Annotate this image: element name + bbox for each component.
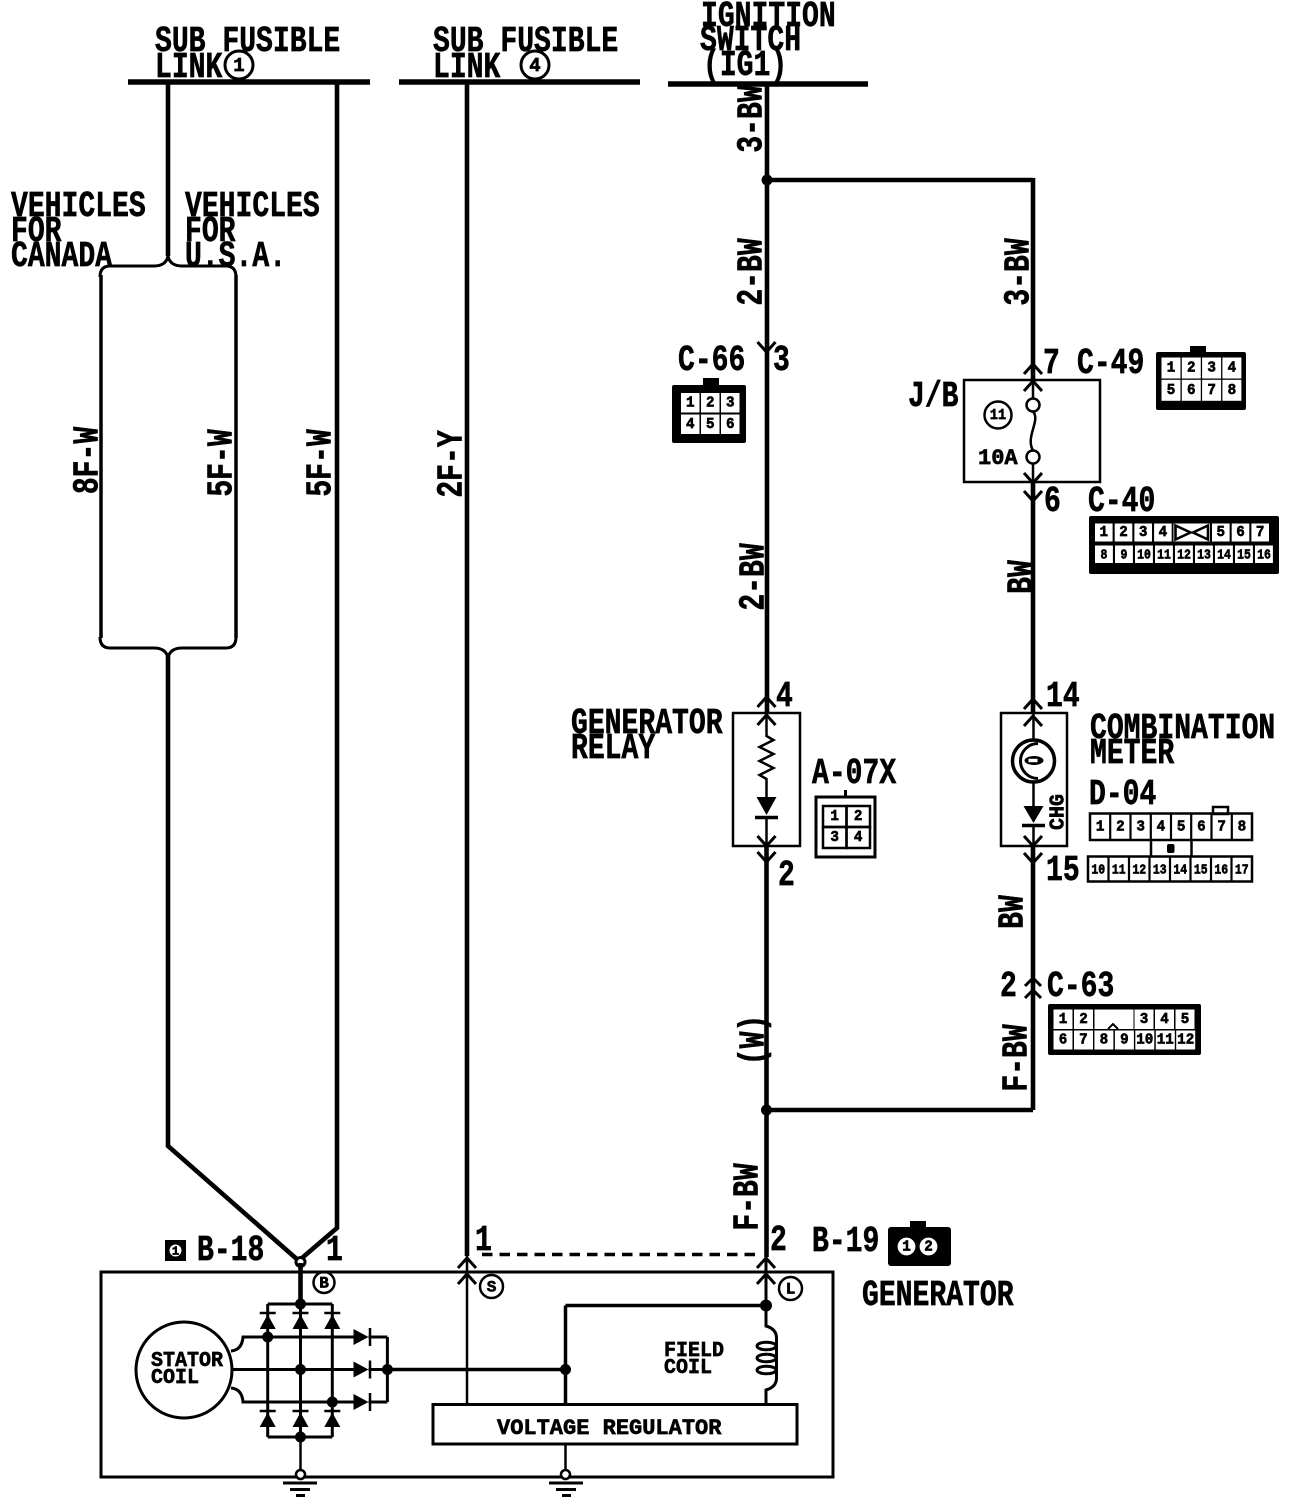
- svg-text:4: 4: [1228, 360, 1237, 376]
- svg-text:14: 14: [1046, 676, 1080, 717]
- svg-text:15: 15: [1237, 547, 1251, 563]
- svg-text:GENERATOR: GENERATOR: [862, 1275, 1014, 1316]
- svg-text:1: 1: [830, 809, 839, 825]
- wire from sub fusible link 1 down to brace: [166, 82, 171, 256]
- wire B+ output to field circuit: [387, 1368, 565, 1372]
- svg-text:15: 15: [1046, 850, 1080, 891]
- svg-text:1: 1: [1100, 525, 1109, 541]
- pin 14 arrow into combination meter: [1024, 699, 1042, 709]
- svg-text:6: 6: [1059, 1032, 1068, 1048]
- svg-text:1: 1: [686, 395, 695, 411]
- svg-text:2-BW: 2-BW: [733, 543, 774, 611]
- svg-text:3: 3: [830, 830, 839, 846]
- voltage regulator ground wire: [564, 1444, 567, 1471]
- connector arrow C-63 pin 2: [1025, 978, 1041, 986]
- svg-text:17: 17: [1235, 861, 1249, 877]
- wire BW from meter to C-63: [1031, 846, 1036, 1110]
- svg-text:(W): (W): [733, 1015, 774, 1066]
- bus bar IGNITION SWITCH: [668, 81, 868, 87]
- svg-text:3-BW: 3-BW: [998, 238, 1039, 306]
- wire 2-BW from C-66 to generator relay: [765, 352, 770, 713]
- svg-text:2: 2: [1119, 525, 1128, 541]
- wire (W) from relay to junction: [764, 846, 769, 1110]
- svg-text:5: 5: [1217, 525, 1226, 541]
- svg-text:5: 5: [1167, 383, 1176, 399]
- bridge top diode 1: [260, 1315, 276, 1330]
- connector A-07X pin box: [844, 790, 847, 797]
- svg-text:METER: METER: [1090, 733, 1175, 774]
- voltage regulator box: [433, 1405, 797, 1445]
- svg-text:4: 4: [776, 676, 793, 717]
- svg-text:9: 9: [1121, 547, 1128, 563]
- pin 4 arrow into generator relay: [758, 697, 776, 707]
- svg-text:8: 8: [1100, 1032, 1109, 1048]
- svg-text:11: 11: [990, 408, 1006, 425]
- svg-text:7: 7: [1079, 1032, 1088, 1048]
- svg-text:3: 3: [726, 395, 735, 411]
- output diode 3: [354, 1394, 369, 1410]
- charge lamp in meter: [1032, 713, 1035, 741]
- node bridge B junction: [295, 1299, 306, 1310]
- svg-text:10: 10: [1091, 861, 1105, 877]
- output diode 2: [354, 1362, 369, 1378]
- circled 11 fuse number: [985, 402, 1012, 429]
- svg-text:11: 11: [1157, 1032, 1174, 1048]
- dashed wire from S to L: [482, 1253, 762, 1257]
- stator phase wire top: [231, 1337, 354, 1351]
- svg-text:8: 8: [1238, 819, 1247, 835]
- connector arrow B-19 pin 2 at L: [757, 1258, 775, 1268]
- B-18 connector icon: [165, 1240, 186, 1261]
- node stator top phase: [262, 1332, 273, 1343]
- svg-text:F-BW: F-BW: [727, 1163, 768, 1231]
- svg-text:5: 5: [1177, 819, 1186, 835]
- node stator bottom phase: [327, 1397, 338, 1408]
- connector C-66 pin box: [703, 378, 719, 386]
- svg-text:C-49: C-49: [1077, 343, 1144, 384]
- stator coil circle: [136, 1322, 232, 1418]
- relay diode: [757, 797, 777, 815]
- wire 2-BW left branch to C-66: [765, 180, 770, 352]
- junction block J/B box: [964, 380, 1100, 482]
- svg-text:1: 1: [1096, 819, 1105, 835]
- connector D-04 key between rows: [1150, 840, 1153, 857]
- wire horizontal to right branch: [767, 178, 1033, 183]
- connector arrow C-40 pin 6: [1024, 473, 1042, 483]
- bridge output bus: [386, 1337, 389, 1402]
- node bridge ground junction: [295, 1432, 306, 1443]
- bus bar SUB FUSIBLE LINK 4: [399, 79, 640, 85]
- svg-text:5F-W: 5F-W: [201, 429, 242, 497]
- svg-text:6: 6: [1197, 819, 1206, 835]
- wire horizontal joining branches: [767, 1108, 1034, 1113]
- svg-text:7: 7: [1043, 343, 1060, 384]
- svg-text:1: 1: [172, 1245, 179, 1259]
- svg-text:7: 7: [1256, 525, 1265, 541]
- circled 1 (sub fusible link 1): [225, 51, 253, 79]
- generator box: [101, 1272, 833, 1477]
- svg-text:8: 8: [1101, 547, 1108, 563]
- bridge top diode 3: [324, 1315, 340, 1330]
- svg-text:3-BW: 3-BW: [731, 85, 772, 153]
- svg-text:1: 1: [1167, 360, 1176, 376]
- svg-text:A-07X: A-07X: [812, 753, 897, 794]
- bridge top diode 2: [293, 1315, 309, 1330]
- node B-18 junction: [296, 1258, 305, 1267]
- wire 3-BW from ignition switch: [765, 84, 770, 180]
- svg-text:BW: BW: [992, 895, 1033, 929]
- svg-text:11: 11: [1112, 861, 1126, 877]
- stator phase wire middle: [232, 1368, 354, 1371]
- svg-text:15: 15: [1194, 861, 1208, 877]
- bus bar SUB FUSIBLE LINK 1: [128, 79, 370, 85]
- node ignition branch junction: [762, 175, 773, 186]
- generator relay box: [733, 713, 800, 846]
- connector C-49 pin box: [1190, 346, 1206, 354]
- wire B into bridge: [298, 1263, 303, 1304]
- svg-text:13: 13: [1153, 861, 1167, 877]
- field coil inductor: [766, 1305, 777, 1405]
- rectifier bridge bottom bus: [268, 1436, 333, 1439]
- svg-text:12: 12: [1177, 547, 1191, 563]
- svg-text:RELAY: RELAY: [571, 728, 656, 769]
- svg-text:2-BW: 2-BW: [731, 238, 772, 306]
- bridge right leg: [331, 1304, 334, 1437]
- svg-text:COIL: COIL: [151, 1366, 199, 1390]
- svg-text:4: 4: [529, 55, 540, 77]
- svg-text:1: 1: [475, 1220, 492, 1261]
- svg-text:4: 4: [1157, 819, 1166, 835]
- svg-text:J/B: J/B: [908, 376, 959, 417]
- terminal S circled: [480, 1275, 503, 1298]
- svg-text:CANADA: CANADA: [11, 236, 113, 277]
- wire 2F-Y from sub fusible link 4 to generator S: [465, 82, 470, 1256]
- svg-text:10: 10: [1136, 1032, 1153, 1048]
- svg-text:2: 2: [706, 395, 715, 411]
- wire field circuit left leg: [564, 1306, 568, 1405]
- svg-text:4: 4: [854, 830, 863, 846]
- svg-text:4: 4: [1160, 1012, 1169, 1028]
- svg-text:4: 4: [1159, 525, 1168, 541]
- meter diode CHG: [1024, 806, 1044, 823]
- svg-text:C-63: C-63: [1047, 966, 1114, 1007]
- combination meter box: [1001, 713, 1067, 846]
- connector D-04 row 2: [1088, 857, 1252, 882]
- svg-text:(IG1): (IG1): [703, 45, 787, 86]
- svg-text:3: 3: [1136, 819, 1145, 835]
- svg-text:1: 1: [902, 1239, 911, 1255]
- wire field circuit top: [566, 1304, 767, 1308]
- wire F-BW down to generator L: [764, 1110, 769, 1257]
- svg-text:BW: BW: [1001, 560, 1042, 594]
- svg-text:1: 1: [1059, 1012, 1068, 1028]
- svg-text:7: 7: [1217, 819, 1226, 835]
- wire 8F-W Canada path: [99, 275, 103, 638]
- svg-text:B-19: B-19: [812, 1221, 879, 1262]
- svg-text:10A: 10A: [978, 446, 1018, 471]
- svg-text:5F-W: 5F-W: [300, 429, 341, 497]
- circled 4 (sub fusible link 4): [521, 51, 549, 79]
- svg-text:F-BW: F-BW: [996, 1024, 1037, 1092]
- wire 3-BW right branch down to J/B: [1031, 178, 1036, 382]
- node L junction: [760, 1300, 772, 1312]
- svg-text:12: 12: [1132, 861, 1146, 877]
- pin 15 arrow out of combination meter: [1024, 836, 1042, 846]
- svg-text:1: 1: [233, 55, 244, 77]
- wire S inside generator to voltage regulator: [466, 1256, 469, 1405]
- svg-text:5: 5: [706, 417, 715, 433]
- svg-text:S: S: [487, 1279, 497, 1297]
- svg-text:5: 5: [1181, 1012, 1190, 1028]
- connector arrow C-66 pin 3: [758, 342, 776, 352]
- svg-text:3: 3: [1140, 1012, 1149, 1028]
- wire 5F-W direct from sub fusible link 1: [302, 82, 337, 1258]
- terminal B circled: [314, 1272, 335, 1293]
- brace merging Canada/USA paths: [100, 637, 236, 658]
- pin 2 arrow out of generator relay: [758, 836, 776, 846]
- rectifier bridge top bus: [268, 1303, 333, 1306]
- svg-text:B-18: B-18: [197, 1230, 264, 1271]
- connector C-63 pin box: [1048, 1004, 1201, 1055]
- svg-text:4: 4: [686, 417, 695, 433]
- node lower junction: [761, 1105, 772, 1116]
- node stator middle phase: [295, 1364, 306, 1375]
- svg-text:6: 6: [726, 417, 735, 433]
- terminal L circled: [779, 1277, 802, 1300]
- svg-text:13: 13: [1197, 547, 1211, 563]
- svg-text:9: 9: [1120, 1032, 1129, 1048]
- svg-text:2: 2: [1000, 966, 1017, 1007]
- svg-text:3: 3: [1139, 525, 1148, 541]
- svg-text:2: 2: [778, 855, 795, 896]
- svg-text:3: 3: [773, 340, 790, 381]
- svg-text:16: 16: [1214, 861, 1228, 877]
- svg-text:L: L: [786, 1281, 796, 1299]
- brace splitting Canada/USA paths: [100, 256, 236, 277]
- relay coil resistor: [760, 713, 774, 797]
- svg-text:16: 16: [1257, 547, 1271, 563]
- bridge middle leg: [299, 1304, 302, 1437]
- svg-text:2: 2: [1079, 1012, 1088, 1028]
- svg-text:7: 7: [1207, 383, 1216, 399]
- bridge bottom diode 2: [293, 1413, 309, 1428]
- bridge bottom diode 3: [324, 1413, 340, 1428]
- svg-text:6: 6: [1044, 481, 1061, 522]
- svg-text:6: 6: [1236, 525, 1245, 541]
- svg-text:8F-W: 8F-W: [67, 426, 108, 494]
- fuse 10A in J/B: [1032, 380, 1035, 399]
- svg-text:6: 6: [1187, 383, 1196, 399]
- svg-text:D-04: D-04: [1089, 774, 1156, 815]
- svg-text:1: 1: [326, 1230, 343, 1271]
- svg-text:B: B: [319, 1275, 329, 1293]
- bridge ground wire: [299, 1437, 302, 1471]
- wire BW from J/B to combination meter: [1031, 482, 1036, 713]
- connector C-40 pin box: [1089, 516, 1279, 574]
- svg-text:C-40: C-40: [1088, 481, 1155, 522]
- stator phase wire bottom: [231, 1388, 354, 1402]
- node field circuit junction: [560, 1364, 571, 1375]
- svg-text:14: 14: [1173, 861, 1187, 877]
- svg-text:10: 10: [1137, 547, 1151, 563]
- connector B-19 pin box: [910, 1221, 926, 1229]
- svg-text:C-66: C-66: [678, 340, 745, 381]
- svg-text:2F-Y: 2F-Y: [431, 430, 472, 498]
- node output bus junction: [382, 1364, 393, 1375]
- svg-text:CHG: CHG: [1047, 794, 1071, 830]
- bridge left leg: [266, 1304, 269, 1437]
- svg-text:12: 12: [1177, 1032, 1194, 1048]
- output diode 1: [354, 1329, 369, 1345]
- ground (bridge): [296, 1470, 305, 1479]
- svg-text:2: 2: [854, 809, 863, 825]
- wire 5F-W USA path: [234, 275, 238, 638]
- connector arrow C-49 pin 7: [1024, 364, 1042, 374]
- svg-text:2: 2: [770, 1220, 787, 1261]
- ground (voltage regulator): [561, 1470, 570, 1479]
- svg-text:8: 8: [1228, 383, 1237, 399]
- connector D-04 row 1: [1213, 807, 1228, 814]
- svg-text:2: 2: [1116, 819, 1125, 835]
- svg-text:11: 11: [1157, 547, 1171, 563]
- wire merged path down to B-18 junction: [168, 656, 299, 1261]
- svg-text:COIL: COIL: [664, 1356, 712, 1380]
- svg-text:VOLTAGE REGULATOR: VOLTAGE REGULATOR: [497, 1416, 722, 1441]
- svg-text:14: 14: [1217, 547, 1231, 563]
- bridge bottom diode 1: [260, 1413, 276, 1428]
- svg-text:2: 2: [924, 1239, 933, 1255]
- connector arrow pin 1 at S: [458, 1258, 476, 1268]
- svg-text:2: 2: [1187, 360, 1196, 376]
- svg-text:3: 3: [1207, 360, 1216, 376]
